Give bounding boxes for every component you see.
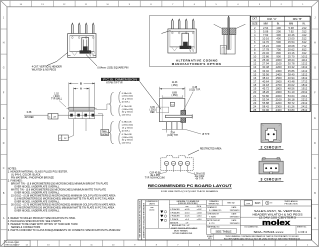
svg-text:8.89: 8.89 [172, 92, 177, 94]
alt left leader [161, 31, 170, 34]
svg-text:2 CIRCUIT: 2 CIRCUIT [260, 146, 282, 150]
2 circuit icon [261, 124, 281, 143]
svg-text:.400: .400 [276, 37, 282, 41]
detail box [101, 129, 109, 135]
svg-text:.1812: .1812 [301, 83, 308, 87]
svg-text:J: J [3, 17, 4, 19]
left margin zone ticks and letters [1, 28, 8, 30]
svg-text:IN.: IN. [277, 23, 281, 26]
svg-text:10.16: 10.16 [262, 37, 269, 41]
callout group 4 [119, 133, 121, 144]
svg-text:0.64mm (.025) SQUARE PIN: 0.64mm (.025) SQUARE PIN [97, 66, 128, 69]
svg-text:22: 22 [253, 97, 256, 101]
units symbols column [158, 200, 160, 229]
svg-text:.1912: .1912 [301, 87, 308, 91]
svg-text:6. PARTS CONFORM TO CLASS B RE: 6. PARTS CONFORM TO CLASS B REQUIREMENTS… [8, 229, 121, 232]
svg-text:17: 17 [253, 79, 256, 83]
svg-text:.1300: .1300 [275, 69, 282, 73]
hatched wall strip [181, 110, 186, 122]
svg-text:.1012: .1012 [301, 55, 308, 59]
svg-text:.1212: .1212 [301, 62, 308, 66]
table data rows [250, 28, 310, 30]
alternative coding option box [150, 16, 251, 67]
svg-text:DATE: DATE [232, 212, 237, 215]
molex logo [240, 216, 311, 218]
dimension A over strip [73, 88, 75, 112]
svg-text:K. ITO: K. ITO [209, 223, 215, 225]
svg-text:.412: .412 [301, 33, 307, 37]
svg-text:.1712: .1712 [301, 79, 308, 83]
svg-text:.800: .800 [276, 51, 282, 55]
svg-text:.712: .712 [301, 44, 307, 48]
svg-text:51.10: 51.10 [288, 90, 295, 94]
3 circuit icon hat [262, 159, 280, 162]
svg-text:15 µ GOLD: 15 µ GOLD [122, 99, 134, 101]
svg-text:.312: .312 [301, 30, 307, 34]
svg-text:DOCUMENT NO.: DOCUMENT NO. [245, 227, 260, 229]
pcb layout holes [164, 161, 168, 165]
alt coding hatched plugs [222, 28, 229, 35]
svg-text:33.02: 33.02 [262, 69, 269, 73]
svg-text:.2400: .2400 [275, 108, 282, 112]
svg-text:IN.: IN. [302, 23, 306, 26]
draft symbols [160, 211, 163, 214]
header latch dark area [80, 46, 92, 53]
title block outer [138, 200, 312, 240]
svg-text:SHEET NO.: SHEET NO. [297, 227, 307, 229]
svg-text:SERIES NO.: SERIES NO. [208, 203, 220, 205]
svg-text:45.72: 45.72 [262, 87, 269, 91]
svg-text:(.350): (.350) [171, 95, 177, 97]
svg-text:0.38±0.05: 0.38±0.05 [122, 122, 132, 124]
svg-text:G: G [314, 68, 316, 70]
svg-text:22.86: 22.86 [262, 55, 269, 59]
svg-text:28.24: 28.24 [288, 58, 295, 62]
svg-text:5.08: 5.08 [263, 30, 269, 34]
pin band [69, 112, 95, 119]
svg-text:.2112: .2112 [301, 94, 308, 98]
svg-text:A: A [80, 87, 82, 91]
svg-text:(.015) TYP.: (.015) TYP. [189, 89, 201, 91]
svg-text:(0 GVL): (0 GVL) [122, 130, 130, 132]
2 circuit white plug face [265, 128, 276, 141]
svg-text:WITHIN DIMENSIONS: WITHIN DIMENSIONS [173, 233, 193, 235]
3 circuit pin holes [265, 167, 267, 169]
svg-text:18.08: 18.08 [288, 44, 295, 48]
svg-text:12: 12 [253, 62, 256, 66]
svg-text:53.34: 53.34 [262, 97, 269, 101]
svg-text:.1700: .1700 [275, 83, 282, 87]
svg-text:mm: mm [246, 203, 250, 205]
svg-text:1997/08/13: 1997/08/13 [230, 217, 240, 219]
alt pin holes [172, 32, 173, 34]
svg-text:APPROVED BY: APPROVED BY [207, 219, 221, 222]
svg-text:61.26: 61.26 [288, 104, 295, 108]
svg-text:.015 REF: .015 REF [24, 117, 34, 119]
svg-text:(.015±.002): (.015±.002) [122, 96, 133, 98]
svg-text:.2100: .2100 [275, 97, 282, 101]
svg-text:(0 GVL): (0 GVL) [122, 101, 130, 103]
svg-text:DIMENSIONS IN MILLIMETERS/INCH: DIMENSIONS IN MILLIMETERS/INCHES [143, 202, 145, 238]
corner mitre bottom-right [312, 240, 319, 247]
proprietary note [212, 234, 214, 240]
svg-text:DIM. "B": DIM. "B" [293, 18, 303, 21]
svg-text:55.88: 55.88 [262, 101, 269, 105]
svg-text:DIM. "A": DIM. "A" [267, 18, 277, 21]
document no row [240, 225, 311, 227]
svg-text:INCORPORATED AND SHOULD NOT BE: INCORPORATED AND SHOULD NOT BE USED WITH… [224, 237, 301, 240]
svg-text:0.38: 0.38 [27, 112, 32, 114]
svg-text:30.48: 30.48 [262, 65, 269, 69]
svg-text:(15 GVL): (15 GVL) [122, 142, 131, 144]
svg-text:.1000: .1000 [275, 58, 282, 62]
svg-text:0.76±0.38: 0.76±0.38 [122, 106, 132, 108]
svg-text:56.18: 56.18 [288, 97, 295, 101]
svg-text:.300: .300 [276, 33, 282, 37]
svg-text:43.48: 43.48 [288, 79, 295, 83]
bottom pitch dim [166, 130, 168, 133]
svg-text:13.00: 13.00 [288, 37, 295, 41]
svg-text:5.38: 5.38 [288, 26, 294, 30]
section view body [160, 99, 185, 122]
svg-text:CHECKED BY: CHECKED BY [207, 213, 219, 215]
svg-text:.1600: .1600 [275, 79, 282, 83]
svg-text:19: 19 [253, 87, 256, 91]
svg-text:.812: .812 [301, 47, 307, 51]
svg-text:.612: .612 [301, 40, 307, 44]
svg-text:4X TYP.: 4X TYP. [195, 179, 204, 181]
3 circuit icon body [259, 161, 283, 174]
svg-text:15.54: 15.54 [288, 40, 295, 44]
svg-text:25.70: 25.70 [288, 55, 295, 59]
svg-text:DRAWN BY: DRAWN BY [207, 206, 217, 209]
svg-text:B: B [80, 82, 82, 86]
corner mitre top-left [1, 1, 8, 7]
strip drop lines [73, 119, 75, 136]
pcb layout outline [161, 156, 193, 171]
svg-text:46.02: 46.02 [288, 83, 295, 87]
header inner ramp right W [89, 52, 95, 57]
svg-text:.2200: .2200 [275, 101, 282, 105]
svg-text:24: 24 [253, 104, 256, 108]
reversed label PCB dimension [101, 78, 140, 81]
svg-text:RECOMMENDED PC BOARD LAYOUT: RECOMMENDED PC BOARD LAYOUT [148, 184, 232, 188]
header pin holes [72, 37, 73, 39]
svg-text:(.030±.015): (.030±.015) [122, 109, 133, 111]
svg-text:FOR USE WITH (1.57)/.062 THICK: FOR USE WITH (1.57)/.062 THICK BOARDS [161, 190, 219, 193]
svg-text:Ø TYP.: Ø TYP. [202, 134, 210, 136]
svg-text:.100: .100 [276, 26, 282, 30]
svg-text:11: 11 [253, 58, 256, 62]
svg-text:30 µ GOLD: 30 µ GOLD [122, 112, 134, 114]
svg-text:7.92: 7.92 [288, 30, 294, 34]
svg-text:20.32: 20.32 [262, 51, 269, 55]
svg-text:.2312: .2312 [301, 101, 308, 105]
horizontal pin bar [166, 115, 193, 118]
svg-text:25: 25 [253, 108, 256, 112]
2 circuit pin holes [267, 133, 269, 135]
svg-text:SDA-70543-xxxx: SDA-70543-xxxx [254, 230, 285, 234]
rotated strip [141, 200, 143, 240]
svg-text:40.64: 40.64 [262, 79, 269, 83]
header pins top row [72, 23, 74, 33]
svg-text:AT PIN TIP TYP.: AT PIN TIP TYP. [106, 82, 123, 85]
svg-text:35.56: 35.56 [262, 72, 269, 76]
svg-text:16: 16 [253, 76, 256, 80]
svg-text:13: 13 [253, 65, 256, 69]
alt coding body [224, 35, 235, 55]
svg-text:.200: .200 [276, 30, 282, 34]
svg-text:P.C.B. DIMENSION: P.C.B. DIMENSION [103, 77, 137, 81]
svg-text:.212: .212 [301, 26, 307, 30]
bottom margin zone ticks and digits [15, 240, 17, 247]
svg-text:DATE: DATE [232, 206, 237, 209]
callout group 2 [119, 105, 121, 116]
svg-text:0.38±0.05: 0.38±0.05 [122, 93, 132, 95]
svg-text:27.94: 27.94 [262, 62, 269, 66]
svg-text:CKT.: CKT. [252, 18, 258, 21]
svg-text:.700: .700 [276, 47, 282, 51]
svg-text:.1112: .1112 [301, 58, 308, 62]
svg-text:38.40: 38.40 [288, 72, 295, 76]
alt coding U pocket [220, 46, 227, 54]
svg-text:30 µ GOLD: 30 µ GOLD [122, 140, 134, 142]
svg-text:(.015±.002): (.015±.002) [122, 125, 133, 127]
svg-text:THIS DRAWING REPLACES SD-70543: THIS DRAWING REPLACES SD-70543-001 [139, 201, 142, 238]
flag box 2X FULL lower [59, 135, 69, 141]
svg-text:.1612: .1612 [301, 76, 308, 80]
svg-text:.512: .512 [301, 37, 307, 41]
svg-text:7.62: 7.62 [263, 33, 269, 37]
top view body bar [69, 107, 95, 110]
svg-text:TYP. NON-ACCUM.: TYP. NON-ACCUM. [145, 177, 166, 180]
svg-text:INCH: INCH [255, 203, 261, 205]
left step latch [157, 107, 169, 113]
svg-text:MANUFACTURER'S OPTION: MANUFACTURER'S OPTION [172, 62, 221, 66]
third angle projection [266, 201, 269, 204]
label leader diagonal [140, 81, 162, 109]
svg-text:.500: .500 [276, 40, 282, 44]
alt coding leader right [236, 24, 246, 28]
svg-text:.2000: .2000 [275, 94, 282, 98]
svg-text:18: 18 [253, 83, 256, 87]
svg-text:15: 15 [253, 72, 256, 76]
svg-text:MM: MM [289, 23, 293, 26]
right margin zone ticks and letters [312, 28, 319, 30]
main header drawing 4-ckt vertical header [68, 34, 96, 58]
svg-text:UNITS: UNITS [149, 203, 156, 205]
svg-text:.2512: .2512 [301, 108, 308, 112]
svg-text:40.94: 40.94 [288, 76, 295, 80]
svg-text:DATE: DATE [232, 219, 237, 222]
svg-text:1997/08/13: 1997/08/13 [230, 223, 240, 225]
big curly bracket lower [109, 122, 113, 144]
small detail square [170, 102, 174, 106]
header inner ramp left [72, 52, 78, 56]
alt header drawing left [168, 29, 196, 53]
svg-text:20.62: 20.62 [288, 47, 295, 51]
revision box bottom left [4, 240, 30, 246]
circuit size dimension table [250, 16, 310, 111]
svg-text:.600: .600 [276, 44, 282, 48]
3 circuit white window [263, 164, 279, 172]
svg-text:25.40: 25.40 [262, 58, 269, 62]
svg-text:.1412: .1412 [301, 69, 308, 73]
svg-text:3 CIRCUIT: 3 CIRCUIT [260, 177, 282, 181]
svg-text:15.24: 15.24 [262, 44, 269, 48]
svg-text:58.42: 58.42 [262, 104, 269, 108]
svg-text:J: J [314, 17, 315, 19]
flag box 2X FULL upper [48, 114, 58, 120]
svg-text:.1800: .1800 [275, 87, 282, 91]
svg-text:.912: .912 [301, 51, 307, 55]
svg-text:.1512: .1512 [301, 72, 308, 76]
corner mitre top-right [312, 1, 319, 7]
svg-text:.1312: .1312 [301, 65, 308, 69]
header center latch slot [82, 38, 89, 53]
svg-text:0.76±0.38: 0.76±0.38 [122, 134, 132, 136]
svg-text:2.54: 2.54 [263, 26, 269, 30]
svg-text:REF: REF [150, 112, 155, 114]
svg-text:.1900: .1900 [275, 90, 282, 94]
svg-text:3 PLACES: 3 PLACES [170, 211, 180, 214]
svg-text:REV. B2: REV. B2 [227, 202, 234, 204]
svg-text:.2212: .2212 [301, 97, 308, 101]
leader line to square pin label [86, 55, 97, 67]
svg-text:.900: .900 [276, 55, 282, 59]
svg-text:63.80: 63.80 [288, 108, 295, 112]
svg-text:MATERIAL NO.: MATERIAL NO. [207, 225, 220, 228]
svg-text:60.96: 60.96 [262, 108, 269, 112]
dimension B over strip [68, 83, 70, 107]
svg-text:MUST REMAIN: MUST REMAIN [174, 230, 188, 233]
alt coding inner channel [225, 35, 227, 50]
svg-text:SIZE: SIZE [252, 23, 258, 26]
svg-text:23.16: 23.16 [288, 51, 295, 55]
svg-text:21: 21 [253, 94, 256, 98]
svg-text:.2412: .2412 [301, 104, 308, 108]
svg-text:(15 GVL): (15 GVL) [122, 114, 131, 116]
svg-text:SEE TABLE: SEE TABLE [215, 230, 231, 234]
alt coding leader left [214, 24, 222, 28]
svg-text:S. OKAMOTO: S. OKAMOTO [209, 209, 222, 212]
svg-text:T. SATO: T. SATO [209, 216, 217, 219]
corner mitre bottom-left [1, 240, 8, 247]
svg-text:RESTRICTED AREA: RESTRICTED AREA [200, 148, 222, 151]
svg-text:1997/08/13: 1997/08/13 [230, 210, 240, 212]
svg-text:58.72: 58.72 [288, 101, 295, 105]
svg-text:(.100) TYP.: (.100) TYP. [167, 135, 179, 137]
callout group 3 [119, 121, 121, 132]
svg-text:(.450): (.450) [171, 85, 177, 87]
svg-text:53.64: 53.64 [288, 94, 295, 98]
leader line to header label [57, 53, 68, 62]
svg-text:20: 20 [253, 90, 256, 94]
svg-text:12.70: 12.70 [262, 40, 269, 44]
svg-text:DETAIL: DETAIL [101, 133, 109, 136]
big curly bracket upper [109, 93, 113, 116]
section pin tails [166, 122, 168, 130]
svg-text:30.78: 30.78 [288, 62, 295, 66]
pins in band [70, 114, 73, 117]
top margin zone ticks and digits [9, 1, 11, 7]
svg-text:50.80: 50.80 [262, 94, 269, 98]
svg-text:.1500: .1500 [275, 76, 282, 80]
section dim 8.89 [161, 95, 163, 98]
svg-text:43.18: 43.18 [262, 83, 269, 87]
svg-text:11.43: 11.43 [172, 82, 178, 84]
svg-text:17.78: 17.78 [262, 47, 269, 51]
svg-text:15 µ GOLD: 15 µ GOLD [122, 127, 134, 129]
svg-text:35.86: 35.86 [288, 69, 295, 73]
svg-text:.1100: .1100 [275, 62, 282, 66]
svg-text:48.26: 48.26 [262, 90, 269, 94]
alt coding center pin needle [228, 16, 229, 50]
svg-text:.1200: .1200 [275, 65, 282, 69]
svg-text:.2300: .2300 [275, 104, 282, 108]
svg-text:38.10: 38.10 [262, 76, 269, 80]
svg-text:OVER NICKEL UNDERPLATE OVERALL: OVER NICKEL UNDERPLATE OVERALL [14, 210, 60, 213]
svg-text:33.32: 33.32 [288, 65, 295, 69]
svg-text:ANGULAR TOL. ±3°: ANGULAR TOL. ±3° [172, 224, 190, 227]
callout group 1 [119, 92, 121, 103]
svg-text:G: G [3, 68, 5, 70]
svg-text:.1400: .1400 [275, 72, 282, 76]
svg-text:(inch): (inch) [149, 209, 154, 211]
svg-text:48.56: 48.56 [288, 87, 295, 91]
dim line through pins [24, 114, 104, 116]
svg-text:10: 10 [253, 55, 256, 59]
svg-text:TYP. BALL: TYP. BALL [51, 98, 63, 101]
units boxes [240, 205, 311, 207]
section dim 11.43 [159, 87, 161, 98]
svg-text:(.030±.015): (.030±.015) [122, 137, 133, 139]
svg-text:MM: MM [264, 23, 268, 26]
general tolerances table [205, 200, 207, 235]
svg-text:REV. A 2003/07: REV. A 2003/07 [6, 244, 21, 247]
svg-text:14: 14 [253, 69, 256, 73]
plating callout leaders from pins [96, 109, 107, 111]
svg-text:23: 23 [253, 101, 256, 105]
svg-text:10.46: 10.46 [288, 33, 295, 37]
svg-text:PROJECTION: PROJECTION [285, 204, 298, 206]
svg-text:.2012: .2012 [301, 90, 308, 94]
svg-text:W/LATCH & NO PEGS: W/LATCH & NO PEGS [32, 69, 57, 72]
drawn by rows [221, 200, 223, 206]
svg-text:1 OF 4: 1 OF 4 [298, 230, 307, 234]
